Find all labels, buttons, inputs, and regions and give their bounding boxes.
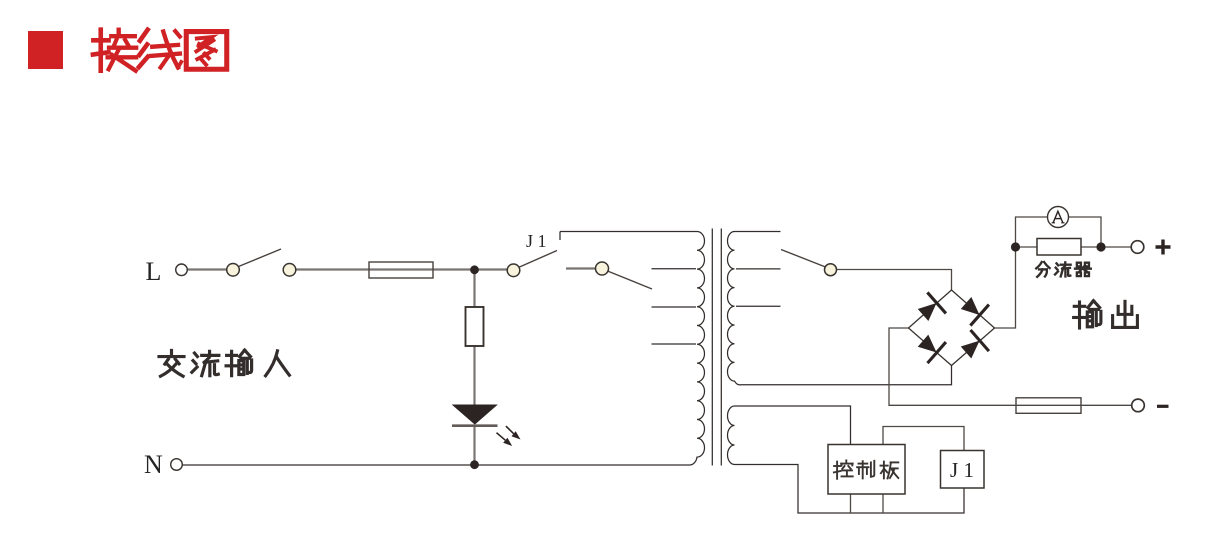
secondary tap 2 [736,305,781,307]
terminal - [1132,399,1145,412]
primary tap 3 [652,343,697,345]
LED D1 triangle [453,405,497,424]
selector pivot [596,262,609,275]
diode top-right [957,293,990,327]
ammeter A1 [1048,207,1069,228]
junction node + left [1011,242,1020,251]
LED D1 cathode bar [452,424,498,427]
控制板 text [834,460,898,478]
title block red square [28,31,63,69]
label + [1156,240,1171,255]
control board box [828,445,905,495]
primary tap 1 [652,268,697,270]
secondary top winding with bottom wire to bridge [728,232,952,385]
resistor R1 [466,307,484,346]
label 输出 [1074,301,1138,328]
control board riser right bottom [882,494,884,513]
secondary tap 1 [736,268,781,270]
bridge diodes [914,291,990,364]
junction node A (L fuse / branch) [470,265,479,274]
core line left [711,229,713,466]
LED D1 emission arrows [497,426,521,446]
wire secondary switch to bridge top [837,270,952,291]
bridge rectifier diamond [909,290,995,366]
control board riser left bottom [850,494,852,513]
title text 接线图 [93,30,227,71]
switch J1 fixed contact tick [559,232,561,241]
core line right [720,229,722,466]
switch J1 blade [520,251,558,268]
selector switch blade [608,271,653,289]
terminal N [171,459,183,471]
diode bottom-left [914,330,947,364]
control board to relay J1 loop top [883,427,964,451]
wire switch contact to fuse F1 / node A [296,268,508,270]
relay J1 box [941,451,985,489]
ammeter loop [1016,217,1102,247]
wire + node through shunt to + terminal [1016,246,1132,248]
fuse F2 [1016,398,1081,414]
label minus [1157,405,1169,408]
svg-text:J 1: J 1 [526,231,547,251]
secondary bottom winding with wires to control board [728,406,965,513]
switch J1 pivot [507,264,520,277]
diode top-left [914,291,947,325]
fuse F1 [369,262,433,278]
junction node + right [1096,242,1105,251]
wire resistor R1 to LED D1 [473,346,475,406]
secondary switch pivot [825,264,837,276]
primary tap 2 [652,306,697,308]
primary winding + top wire + N line [182,232,705,466]
switch S1 pivot [227,264,240,277]
secondary switch blade [781,250,826,268]
label 交流输入 [159,350,289,376]
wire L terminal to switch [188,268,228,270]
label 分流器 [1036,262,1091,277]
junction node on N line [470,460,479,469]
shunt resistor [1037,239,1081,256]
wire LED D1 to N line [473,426,475,463]
wire selector common [566,267,596,269]
switch S1 contact [283,264,296,277]
svg-text:L: L [146,257,162,286]
switch S1 blade [239,249,282,267]
wire bridge left to minus line through fuse F2 [889,328,1132,405]
wire bridge right to + node [995,251,1016,328]
wire node A down to resistor R1 [473,272,475,307]
svg-text:N: N [144,450,163,479]
terminal L [176,264,188,276]
terminal + [1131,241,1144,254]
svg-text:J 1: J 1 [950,458,974,482]
diode bottom-right [957,329,990,363]
